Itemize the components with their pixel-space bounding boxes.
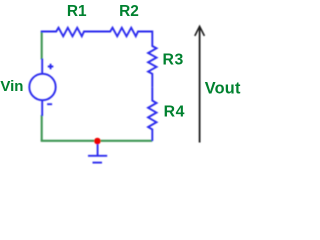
ground symbol bar 2 [93,162,103,164]
ground symbol bar 1 [88,155,107,157]
voltage source V1 top lead [41,59,43,74]
resistor R4 (vertical zigzag, right lower) [148,87,156,141]
wire: left vertical from top-left corner down to source + terminal [41,31,43,60]
svg-text:R3: R3 [163,52,184,69]
wire: bottom ground rail from source to R4 bottom [41,140,153,142]
svg-text:R2: R2 [119,3,139,20]
junction node (red dot) at ground connection [94,138,101,145]
voltage source V1 plus sign [48,64,54,70]
svg-text:Vout: Vout [205,80,241,98]
Vout reference arrow head [195,26,205,36]
Vout reference arrow shaft [199,27,201,143]
svg-text:R1: R1 [67,3,87,20]
resistor R1 (zigzag, top left) [41,28,97,37]
voltage source V1 minus sign [47,103,52,105]
voltage source V1 bottom lead [41,100,43,116]
ground symbol stem [97,141,99,156]
svg-text:Vin: Vin [0,78,23,95]
resistor R3 (vertical zigzag, right upper) [148,31,156,88]
resistor R2 (zigzag, top right) [97,28,152,37]
voltage source V1 circle [29,74,55,100]
svg-text:R4: R4 [164,104,185,121]
wire: left vertical from source - terminal down to bottom-left corner [41,115,43,141]
